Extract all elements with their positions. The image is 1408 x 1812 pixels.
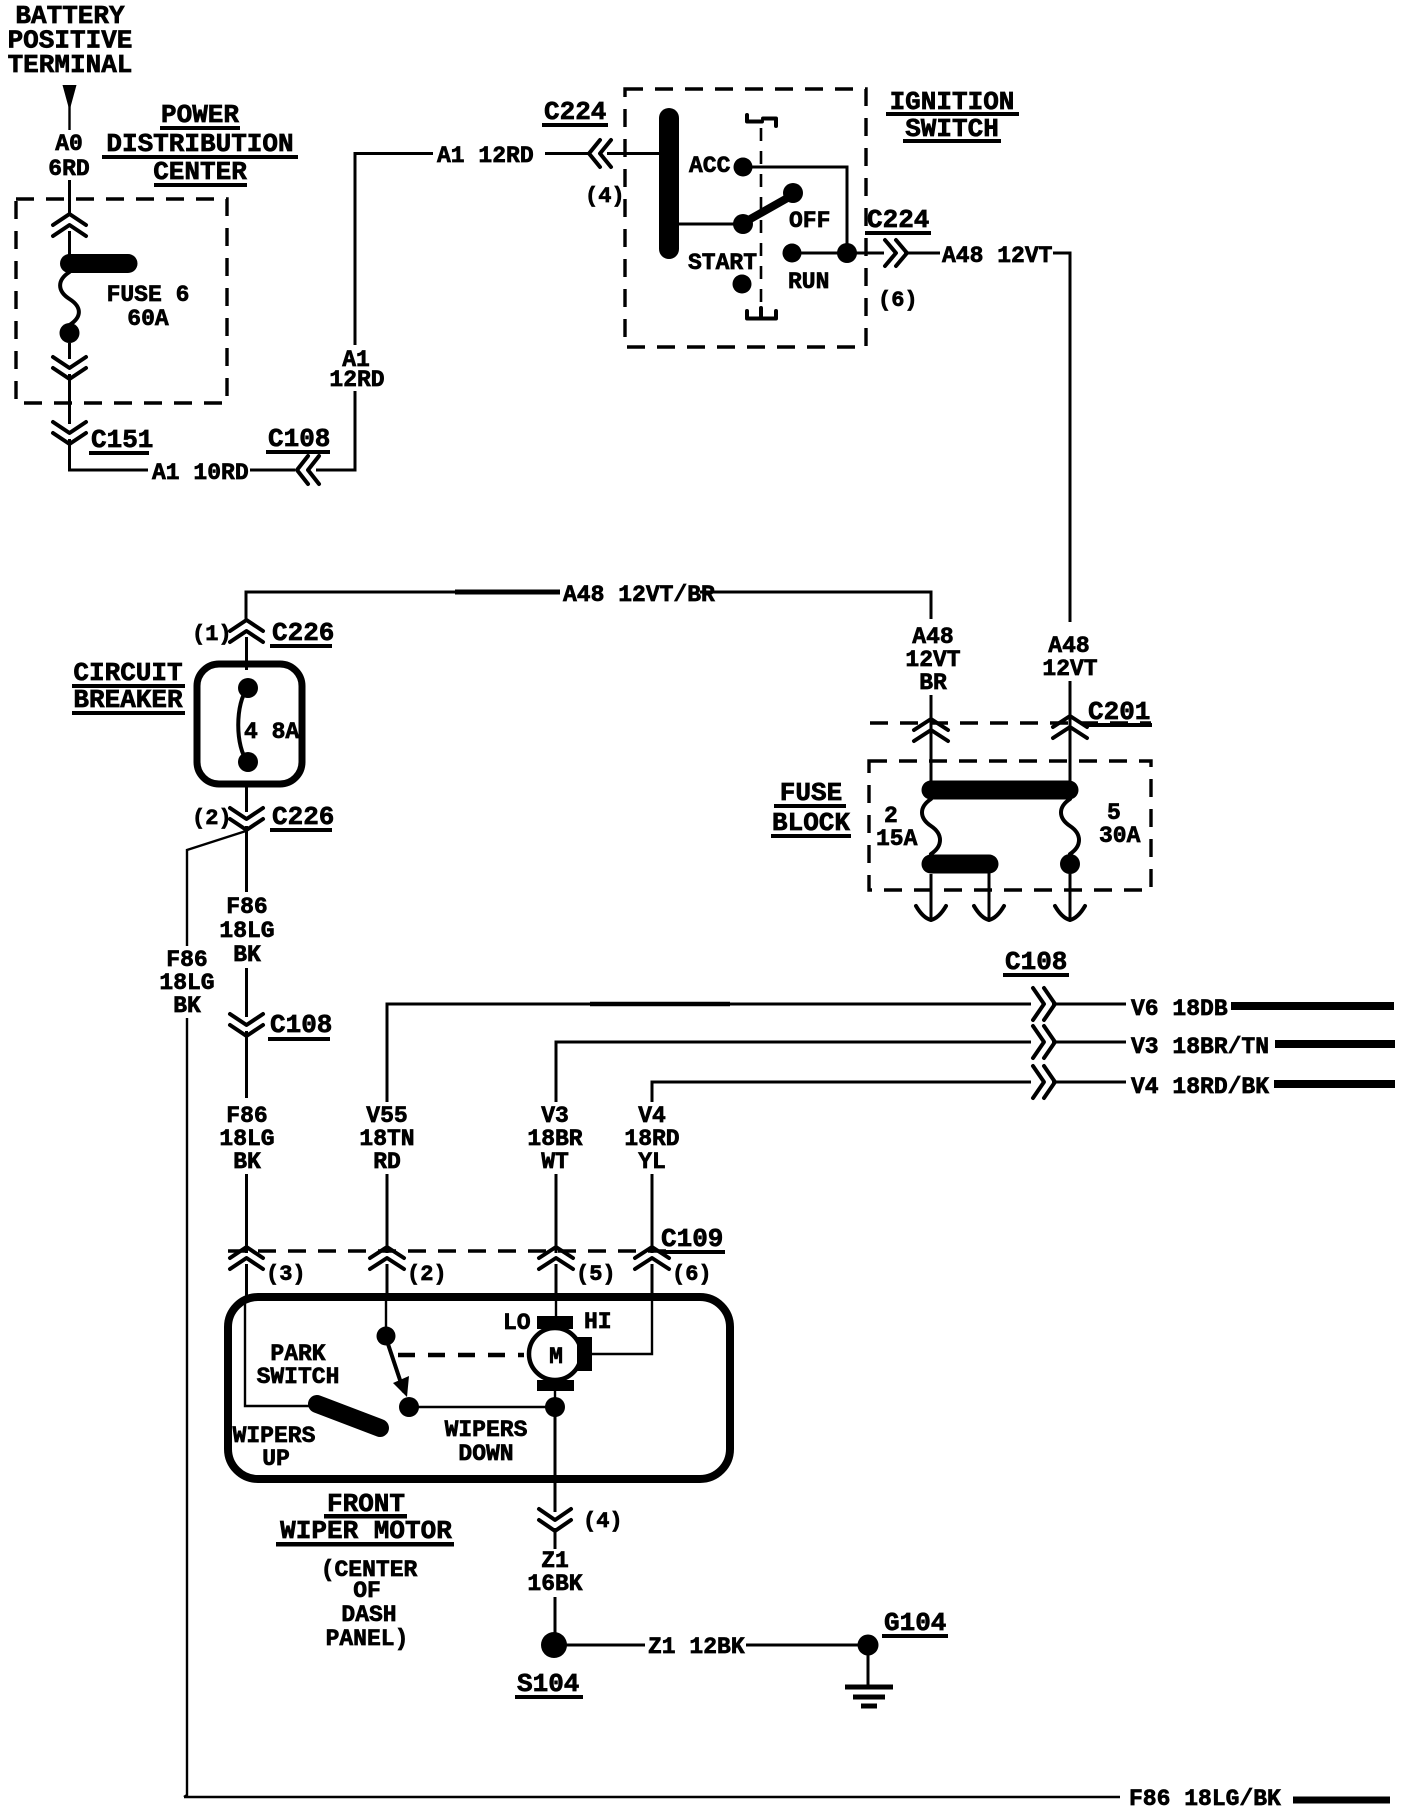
label CIRCUIT BREAKER xyxy=(72,658,185,715)
svg-text:15A: 15A xyxy=(876,826,918,852)
fuse bus bar xyxy=(931,781,1069,800)
wire A48 12VT/BR horizontal run xyxy=(246,592,455,619)
svg-text:12RD: 12RD xyxy=(329,367,384,393)
fuse block output stub middle xyxy=(974,872,1004,920)
svg-text:(2): (2) xyxy=(192,806,232,831)
svg-text:BR: BR xyxy=(919,670,947,696)
wire V3 to motor xyxy=(555,1301,557,1318)
battery feed arrow xyxy=(63,85,77,130)
svg-text:A0: A0 xyxy=(55,131,83,157)
key mark bottom xyxy=(747,308,776,319)
connector C109 chevron pin 6 xyxy=(635,1247,669,1269)
svg-text:(5): (5) xyxy=(576,1262,616,1287)
label (CENTER OF DASH PANEL) xyxy=(321,1557,418,1652)
wire resume to C109 xyxy=(245,1174,248,1253)
svg-text:SWITCH: SWITCH xyxy=(257,1364,340,1390)
ground node G104 xyxy=(858,1635,879,1656)
svg-text:C108: C108 xyxy=(1005,947,1067,977)
wire wipers-down to motor bottom junction xyxy=(418,1406,549,1408)
wire breaker to C226 bottom xyxy=(245,784,248,812)
fuse 2 element xyxy=(922,799,940,854)
wires C201 into fuse block xyxy=(930,736,933,786)
svg-text:ACC: ACC xyxy=(689,153,731,179)
svg-text:C108: C108 xyxy=(270,1010,332,1040)
ignition switch dashed box xyxy=(625,89,866,347)
svg-text:C151: C151 xyxy=(91,425,153,455)
wire to C108 chevron xyxy=(250,469,295,472)
key dashed line xyxy=(760,128,763,316)
svg-text:LO: LO xyxy=(503,1310,531,1336)
wire stub to V4 label xyxy=(1052,1081,1126,1084)
park switch lever xyxy=(317,1404,380,1428)
wire label A0 6RD xyxy=(48,131,89,182)
svg-text:DISTRIBUTION: DISTRIBUTION xyxy=(106,129,293,159)
dashed link to motor xyxy=(398,1353,524,1358)
START contact xyxy=(733,275,752,294)
svg-text:BREAKER: BREAKER xyxy=(73,685,183,715)
svg-text:(4): (4) xyxy=(585,184,625,209)
terminal ACC xyxy=(689,153,753,179)
svg-text:V4 18RD/BK: V4 18RD/BK xyxy=(1131,1074,1269,1100)
label C201 xyxy=(1086,697,1152,727)
svg-text:30A: 30A xyxy=(1099,823,1141,849)
wire label F86 18LG BK (lower) xyxy=(219,1103,274,1175)
svg-text:DOWN: DOWN xyxy=(458,1441,513,1467)
label C109 xyxy=(659,1224,725,1254)
svg-text:60A: 60A xyxy=(127,306,169,332)
label C108 (center) xyxy=(268,1010,332,1041)
connector C226 top chevrons xyxy=(230,620,263,642)
svg-text:FUSE 6: FUSE 6 xyxy=(107,282,190,308)
svg-text:G104: G104 xyxy=(884,1608,946,1638)
wire to splice xyxy=(554,1597,557,1634)
wire to ground point xyxy=(746,1644,860,1647)
breaker top terminal xyxy=(238,678,258,698)
connector C201 dashed line xyxy=(870,721,1151,724)
wire V4 to C109 xyxy=(651,1174,654,1253)
connector C201 chevrons left xyxy=(914,719,948,741)
label 5 30A xyxy=(1099,800,1141,849)
wire V4 horizontal run xyxy=(652,1082,1031,1102)
label C108 xyxy=(266,424,330,454)
wire splice to label xyxy=(566,1644,645,1647)
label IGNITION SWITCH xyxy=(886,87,1019,144)
wire label V3 18BR WT xyxy=(527,1103,582,1175)
svg-text:UP: UP xyxy=(262,1446,290,1472)
svg-text:OF: OF xyxy=(353,1578,381,1604)
wire F86 to C109 xyxy=(245,1031,248,1098)
svg-text:WIPERS: WIPERS xyxy=(445,1417,528,1443)
wire to fuse block corner xyxy=(700,592,931,619)
svg-text:HI: HI xyxy=(584,1309,612,1335)
svg-text:WT: WT xyxy=(541,1149,569,1175)
connector C151 chevrons xyxy=(53,422,86,444)
label S104 xyxy=(515,1669,583,1699)
wire label F86 18LG BK (center) xyxy=(219,894,274,968)
svg-text:BLOCK: BLOCK xyxy=(772,808,850,838)
wire to Z1 label xyxy=(554,1528,557,1549)
wire label V4 18RD YL xyxy=(624,1103,679,1175)
wire V55 to C109 xyxy=(386,1174,389,1253)
wire chevron to fuse xyxy=(68,231,71,256)
label C226 (bottom) xyxy=(270,802,334,832)
splice S104 xyxy=(541,1632,567,1658)
connector C108 chevrons (center) xyxy=(230,1014,263,1036)
wire label A48 12VT BR (vertical) xyxy=(905,624,960,696)
ground symbol xyxy=(845,1654,893,1706)
svg-text:C109: C109 xyxy=(661,1224,723,1254)
svg-text:A1 12RD: A1 12RD xyxy=(437,143,534,169)
wire down to corner and A1 10RD run xyxy=(70,439,149,470)
svg-text:6RD: 6RD xyxy=(48,156,89,182)
svg-text:FUSE: FUSE xyxy=(780,778,842,808)
switch common contact xyxy=(733,214,753,234)
circuit breaker body xyxy=(197,664,302,784)
svg-text:(6): (6) xyxy=(878,288,918,313)
label C108 (fuse block) xyxy=(1003,947,1069,977)
svg-text:YL: YL xyxy=(638,1149,666,1175)
connector C109 chevron pin 5 xyxy=(539,1247,573,1269)
label C151 xyxy=(89,425,153,455)
svg-text:C224: C224 xyxy=(867,205,929,235)
svg-text:WIPER MOTOR: WIPER MOTOR xyxy=(280,1516,452,1546)
key mark top xyxy=(747,115,776,126)
wire ACC to run junction xyxy=(752,167,847,249)
svg-text:START: START xyxy=(688,250,757,276)
wipers down contact xyxy=(399,1397,419,1417)
svg-text:C226: C226 xyxy=(272,802,334,832)
wire label A1 12RD (vertical) xyxy=(329,347,384,393)
connector C224 chevrons (right) xyxy=(885,240,907,266)
svg-text:C108: C108 xyxy=(268,424,330,454)
svg-text:BK: BK xyxy=(233,942,261,968)
wire F86 into park switch xyxy=(245,1301,312,1406)
svg-text:F86 18LG/BK: F86 18LG/BK xyxy=(1129,1786,1281,1812)
wire thick segment xyxy=(455,590,560,595)
wire to A48 12VT label xyxy=(904,252,940,255)
wire F86 bottom continuation (thick) xyxy=(1293,1797,1390,1804)
svg-text:RD: RD xyxy=(373,1149,401,1175)
ignition switch wafer bar xyxy=(659,118,679,249)
connector C108 chevron V3 xyxy=(1033,1026,1055,1058)
wire stub to V6 label xyxy=(1052,1003,1126,1006)
wire resumes to C201 xyxy=(1069,681,1072,734)
label G104 xyxy=(882,1608,948,1638)
svg-text:Z1 12BK: Z1 12BK xyxy=(648,1634,745,1660)
PDC output pin chevrons xyxy=(53,357,86,379)
wire resume to C201 left pin xyxy=(930,695,933,740)
wire wafer to common xyxy=(679,223,736,226)
svg-text:F86: F86 xyxy=(226,894,267,920)
wire label V55 18TN RD xyxy=(359,1103,414,1175)
svg-text:C201: C201 xyxy=(1088,697,1150,727)
connector C108 chevron V4 xyxy=(1033,1066,1055,1098)
wire fuse to out-pin xyxy=(68,343,71,359)
wire F86 bottom run xyxy=(184,1796,1120,1798)
run junction node xyxy=(837,243,857,263)
wire branch to left F86 run xyxy=(187,831,246,946)
svg-text:A48 12VT: A48 12VT xyxy=(942,243,1053,269)
wire stub to V3 label xyxy=(1052,1041,1126,1044)
label BATTERY POSITIVE TERMINAL xyxy=(8,1,133,80)
svg-text:CIRCUIT: CIRCUIT xyxy=(73,658,182,688)
connector C224 chevrons (left) xyxy=(589,140,611,167)
svg-text:RUN: RUN xyxy=(788,269,829,295)
wire label F86 18LG BK (left) xyxy=(159,947,214,1019)
wire breaker down xyxy=(245,826,248,892)
fuse block output stub left xyxy=(916,874,946,920)
front wiper motor box xyxy=(228,1297,730,1479)
wire V3 horizontal run xyxy=(556,1042,1031,1102)
svg-text:(3): (3) xyxy=(266,1262,306,1287)
connector C109 dashed line xyxy=(228,1249,674,1252)
connector C109 chevron pin 3 xyxy=(230,1247,263,1269)
svg-text:16BK: 16BK xyxy=(527,1571,582,1597)
wires C109 into wiper box xyxy=(247,1264,653,1300)
svg-text:(2): (2) xyxy=(407,1262,447,1287)
svg-text:TERMINAL: TERMINAL xyxy=(8,50,133,80)
svg-text:PANEL): PANEL) xyxy=(326,1626,409,1652)
svg-text:C224: C224 xyxy=(544,97,606,127)
label PARK SWITCH xyxy=(257,1341,340,1390)
label C224 (left) xyxy=(542,97,608,127)
switch arm contact (up) xyxy=(377,1327,396,1346)
wire label A48 12VT (vertical) xyxy=(1042,633,1097,682)
OFF contact xyxy=(783,183,803,203)
switch arm with arrow xyxy=(388,1344,409,1397)
svg-text:S104: S104 xyxy=(517,1669,579,1699)
wire PDC to C151 xyxy=(68,374,71,424)
connector chevron (4) xyxy=(539,1509,571,1531)
svg-text:(4): (4) xyxy=(583,1509,623,1534)
svg-text:18LG: 18LG xyxy=(219,918,274,944)
svg-text:OFF: OFF xyxy=(789,208,830,234)
breaker element curve xyxy=(238,688,248,762)
PDC dashed box xyxy=(16,199,227,403)
wire into C224 xyxy=(545,152,588,155)
svg-text:BK: BK xyxy=(173,993,201,1019)
connector C201 chevrons right xyxy=(1053,716,1087,738)
connector C226 bottom chevrons xyxy=(230,808,263,830)
fuse 6 element xyxy=(60,264,129,344)
svg-text:(6): (6) xyxy=(672,1262,712,1287)
RUN contact xyxy=(783,244,802,263)
svg-text:M: M xyxy=(549,1344,563,1370)
label C226 (top) xyxy=(270,618,334,648)
fuse block output stub right xyxy=(1055,874,1085,920)
wire into ignition box xyxy=(607,152,661,155)
svg-text:A1 10RD: A1 10RD xyxy=(152,460,249,486)
fuse 2 output bar xyxy=(931,855,989,874)
wire V55 to switch arm xyxy=(385,1301,387,1328)
breaker bottom terminal xyxy=(238,752,258,772)
wire Z1 out of box xyxy=(554,1415,557,1512)
wire RUN to junction and out xyxy=(792,252,884,255)
fuse 5 output terminal xyxy=(1060,854,1080,874)
fuse block dashed box xyxy=(869,761,1151,890)
wire into breaker xyxy=(245,637,248,670)
svg-text:DASH: DASH xyxy=(341,1602,396,1628)
wire label Z1 16BK xyxy=(527,1548,582,1597)
label WIPERS UP xyxy=(233,1423,316,1472)
connector C108 chevron V6 xyxy=(1033,988,1055,1020)
svg-text:V3 18BR/TN: V3 18BR/TN xyxy=(1131,1034,1269,1060)
wire A48 12VT drop to fuse block xyxy=(1053,253,1070,622)
motor return junction xyxy=(545,1397,565,1417)
wire motor bottom xyxy=(554,1390,556,1400)
svg-text:V6 18DB: V6 18DB xyxy=(1131,996,1228,1022)
fuse 5 element xyxy=(1061,799,1079,854)
wire V4 continuation (thick) xyxy=(1274,1080,1395,1088)
wire V55 horizontal run xyxy=(387,1004,1031,1102)
label FUSE BLOCK xyxy=(771,778,851,838)
svg-text:12VT: 12VT xyxy=(1042,656,1097,682)
wire to C108 chevron xyxy=(245,968,248,1017)
wire battery to PDC xyxy=(68,180,71,216)
wire A1 12RD riser xyxy=(316,391,355,470)
wire V4 to motor HI xyxy=(590,1301,652,1354)
label FUSE 6 60A xyxy=(107,282,190,332)
svg-text:A48 12VT/BR: A48 12VT/BR xyxy=(563,582,715,608)
label WIPERS DOWN xyxy=(445,1417,528,1467)
label C224 (right) xyxy=(865,205,931,235)
label 2 15A xyxy=(876,803,918,852)
wire V3 to C109 xyxy=(555,1174,558,1253)
wire left F86 long drop xyxy=(184,1018,187,1797)
connector C108 chevrons (left) xyxy=(297,456,319,484)
switch lever to OFF xyxy=(745,196,791,222)
svg-text:(1): (1) xyxy=(192,622,232,647)
wire V6 continuation (thick) xyxy=(1231,1002,1394,1010)
svg-text:CENTER: CENTER xyxy=(153,157,247,187)
wire riser top to ignition xyxy=(355,154,433,346)
label POWER DISTRIBUTION CENTER xyxy=(102,100,298,187)
svg-text:4 8A: 4 8A xyxy=(244,719,299,745)
svg-text:POWER: POWER xyxy=(161,100,239,130)
label FRONT WIPER MOTOR xyxy=(276,1489,454,1547)
connector C109 chevron pin 2 xyxy=(370,1247,404,1269)
wiper motor M xyxy=(529,1316,592,1391)
connector pins into PDC (chevrons) xyxy=(53,214,86,236)
wire V3 continuation (thick) xyxy=(1275,1040,1395,1048)
svg-text:BK: BK xyxy=(233,1149,261,1175)
svg-text:C226: C226 xyxy=(272,618,334,648)
